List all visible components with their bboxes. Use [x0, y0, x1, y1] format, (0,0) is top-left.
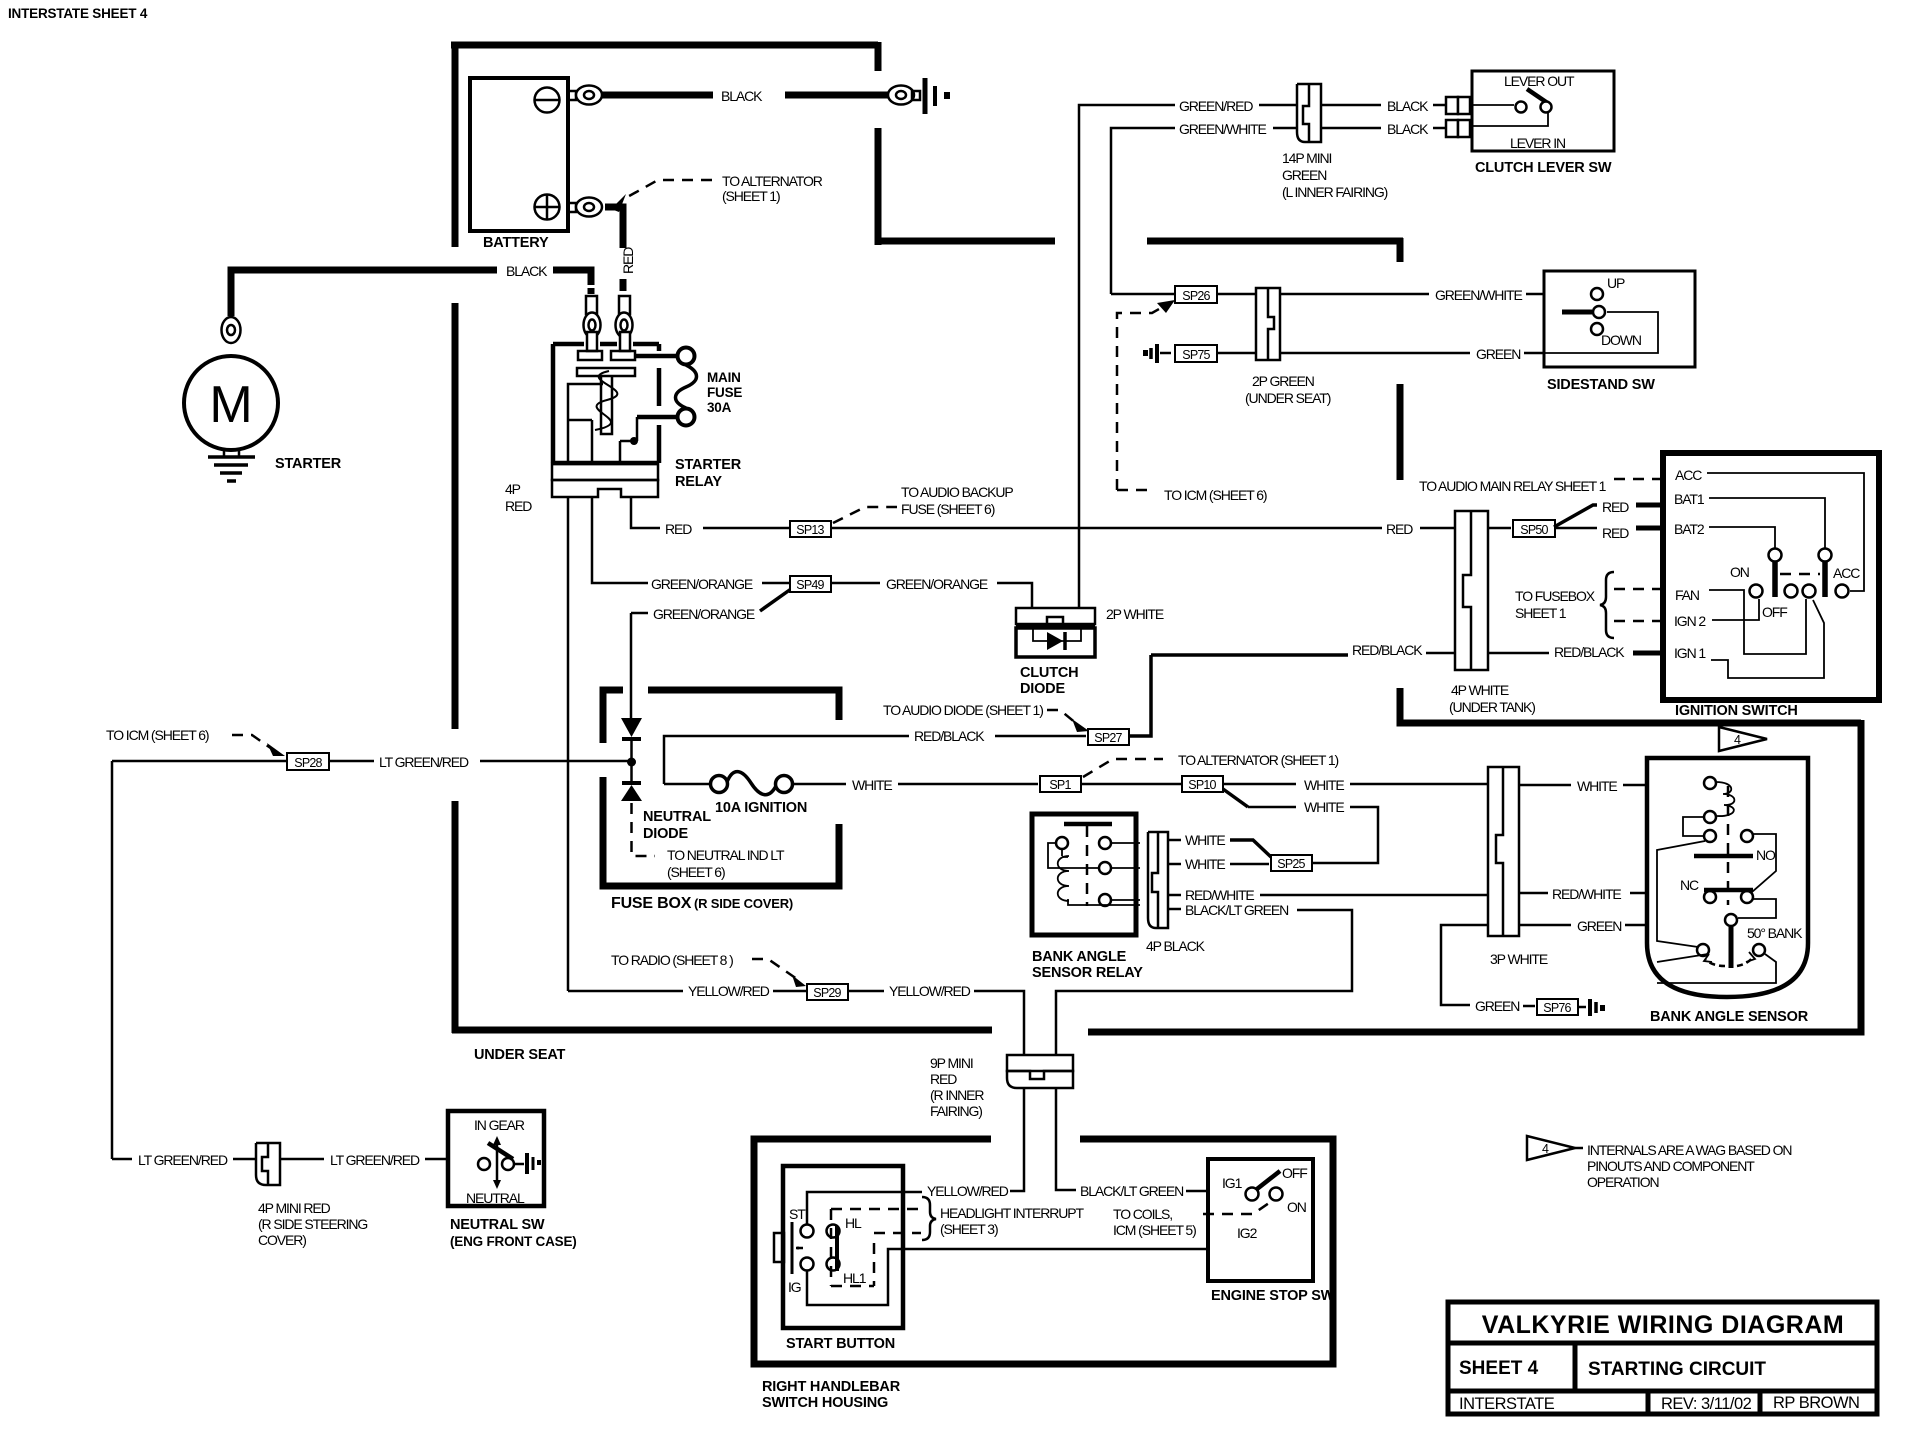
clutch diode box [1016, 608, 1095, 624]
splice SP75 [1175, 345, 1217, 362]
dashed TO ALTERNATOR (SHEET 1) pointer [622, 180, 712, 200]
svg-text:SP1: SP1 [1049, 778, 1071, 792]
ring terminal relay pin 1 [584, 313, 601, 338]
starter ground [224, 450, 239, 457]
svg-text:SP25: SP25 [1277, 857, 1305, 871]
svg-text:M: M [209, 376, 252, 434]
wire RED diagonal to BAT1 [1554, 505, 1597, 527]
svg-text:RED: RED [1602, 499, 1629, 515]
svg-text:FUSE: FUSE [707, 385, 742, 400]
svg-text:(ENG FRONT CASE): (ENG FRONT CASE) [450, 1234, 577, 1249]
svg-text:WHITE: WHITE [1185, 856, 1225, 872]
svg-text:RED: RED [1386, 521, 1413, 537]
svg-text:RIGHT HANDLEBAR: RIGHT HANDLEBAR [762, 1379, 901, 1395]
svg-text:RED/WHITE: RED/WHITE [1552, 886, 1621, 902]
svg-text:WHITE: WHITE [1304, 799, 1344, 815]
svg-text:RED: RED [1602, 525, 1629, 541]
fuse box wall left-bottom-right [603, 777, 839, 886]
wire 4P white to SP50 [1488, 527, 1511, 530]
svg-text:(SHEET 3): (SHEET 3) [940, 1221, 998, 1237]
wire relay T2 to main fuse [635, 354, 677, 359]
neutral diode upper (to junction) [621, 718, 642, 737]
wire RED/WHITE relay to 3P [1168, 894, 1181, 897]
ignition IGN1 line [1711, 600, 1824, 678]
wire SP26 to 2P green [1111, 293, 1175, 296]
wire RED from SP13 to 4P white [831, 527, 1382, 530]
svg-text:BLACK/LT GREEN: BLACK/LT GREEN [1080, 1183, 1183, 1199]
svg-text:GREEN/ORANGE: GREEN/ORANGE [886, 576, 988, 592]
wire IG loop to engine stop IG2 [807, 1201, 1276, 1305]
svg-text:50° BANK: 50° BANK [1747, 925, 1803, 941]
svg-text:WHITE: WHITE [852, 777, 892, 793]
svg-text:YELLOW/RED: YELLOW/RED [927, 1183, 1009, 1199]
svg-text:SP29: SP29 [813, 986, 841, 1000]
svg-text:2P WHITE: 2P WHITE [1106, 606, 1164, 622]
wall: left vertical x455 seg1 [452, 42, 459, 247]
wall: horizontal y241 segment a [875, 238, 1055, 245]
svg-text:SHEET 1: SHEET 1 [1515, 605, 1567, 621]
svg-text:GREEN: GREEN [1577, 918, 1621, 934]
relay internal wires [1048, 843, 1140, 905]
svg-text:TO COILS,: TO COILS, [1113, 1206, 1172, 1222]
svg-text:4: 4 [1734, 733, 1741, 747]
svg-text:TO ICM (SHEET 6): TO ICM (SHEET 6) [1164, 487, 1267, 503]
svg-text:BLACK/LT GREEN: BLACK/LT GREEN [1185, 902, 1288, 918]
svg-text:NC: NC [1680, 877, 1699, 893]
ground symbol at neutral sw [525, 1153, 529, 1174]
svg-text:ON: ON [1287, 1199, 1306, 1215]
svg-text:TO ALTERNATOR: TO ALTERNATOR [722, 173, 823, 189]
svg-text:OFF: OFF [1762, 604, 1787, 620]
svg-text:SWITCH HOUSING: SWITCH HOUSING [762, 1395, 888, 1411]
svg-text:YELLOW/RED: YELLOW/RED [688, 983, 770, 999]
wire BLACK battery to ground [602, 92, 713, 99]
wall: horizontal y241 segment b [1147, 238, 1403, 245]
wire SP1 to SP10 [1081, 783, 1181, 786]
wire YELLOW/RED SP29 to 9P [848, 990, 884, 993]
svg-text:REV: 3/11/02: REV: 3/11/02 [1661, 1395, 1752, 1413]
svg-text:GREEN: GREEN [1476, 346, 1520, 362]
sensor coil [1716, 782, 1734, 816]
svg-text:RED/BLACK: RED/BLACK [914, 728, 985, 744]
bullet connector pair lower [1446, 120, 1458, 137]
svg-text:ACC: ACC [1833, 565, 1860, 581]
wire GREEN/ORANGE from SP49 to clutch diode [831, 582, 880, 585]
svg-text:STARTING CIRCUIT: STARTING CIRCUIT [1588, 1359, 1766, 1380]
svg-text:(R INNER: (R INNER [930, 1087, 984, 1103]
wire RED/BLACK from fuse box [664, 736, 909, 784]
wall: right vertical x878 lower segment [875, 128, 882, 245]
ring terminal at battery negative [568, 91, 576, 100]
ground symbol at SP75 [1143, 350, 1148, 356]
sensor swing arrows [1706, 957, 1753, 966]
svg-text:SP28: SP28 [294, 756, 322, 770]
splice SP27 [1088, 729, 1129, 745]
svg-text:RED/WHITE: RED/WHITE [1185, 887, 1254, 903]
sensor NO bar [1694, 854, 1753, 859]
svg-text:INTERNALS ARE A WAG BASED ON: INTERNALS ARE A WAG BASED ON [1587, 1142, 1791, 1158]
wire ST to YELLOW/RED [807, 1192, 922, 1224]
neutral sw arrow [496, 1143, 499, 1182]
ground symbol at SP76 [1588, 999, 1592, 1016]
sensor dashed axis [1727, 786, 1730, 905]
svg-text:LT GREEN/RED: LT GREEN/RED [330, 1152, 420, 1168]
wire RED/WHITE 3P to sensor [1519, 892, 1548, 895]
wire LT GREEN/RED from SP28 to junction [112, 760, 287, 763]
svg-text:NEUTRAL: NEUTRAL [466, 1190, 525, 1206]
connector 2P GREEN [1256, 288, 1280, 360]
svg-text:BANK ANGLE SENSOR: BANK ANGLE SENSOR [1650, 1009, 1809, 1025]
svg-text:RELAY: RELAY [675, 474, 722, 490]
svg-text:RP BROWN: RP BROWN [1773, 1394, 1859, 1412]
wire WHITE relay to SP25 [1168, 863, 1181, 866]
svg-text:GREEN/WHITE: GREEN/WHITE [1435, 287, 1522, 303]
svg-text:FAIRING): FAIRING) [930, 1103, 982, 1119]
svg-text:4P MINI RED: 4P MINI RED [258, 1200, 331, 1216]
svg-text:BLACK: BLACK [506, 263, 548, 279]
svg-text:TO AUDIO BACKUP: TO AUDIO BACKUP [901, 484, 1013, 500]
svg-text:OPERATION: OPERATION [1587, 1174, 1659, 1190]
svg-text:(SHEET 6): (SHEET 6) [667, 864, 725, 880]
wire main fuse to junction [637, 415, 677, 420]
relay plunger [601, 376, 612, 434]
main fuse 30A [678, 348, 695, 365]
wire relay pin1 down (to yellow/red) [567, 497, 570, 991]
bank angle sensor relay box [1032, 814, 1136, 935]
wire GREEN/ORANGE 2 into fuse box [631, 612, 648, 615]
svg-text:UP: UP [1607, 275, 1625, 291]
svg-text:(R SIDE COVER): (R SIDE COVER) [694, 896, 793, 911]
bank angle sensor outline [1647, 758, 1808, 997]
svg-text:BLACK: BLACK [721, 88, 763, 104]
wire SP27 up to RED/BLACK run [1129, 655, 1151, 736]
start button dashed linkages [831, 1209, 921, 1286]
svg-text:FUSE BOX: FUSE BOX [611, 895, 692, 912]
wall: vertical x1400 seg2 [1397, 384, 1404, 480]
brace for TO FUSEBOX [1600, 572, 1614, 638]
svg-text:DIODE: DIODE [643, 826, 688, 842]
start button actuator [774, 1233, 784, 1262]
svg-text:HL1: HL1 [843, 1270, 867, 1286]
wire YELLOW/RED to SP29 [568, 990, 683, 993]
svg-text:RED/BLACK: RED/BLACK [1554, 644, 1625, 660]
wire LT GREEN/RED to 4P mini red [112, 1158, 132, 1161]
junction node [627, 758, 636, 767]
svg-text:3P WHITE: 3P WHITE [1490, 951, 1548, 967]
wire BLACK clutch lever 2 [1321, 127, 1381, 130]
relay contact bar [577, 368, 635, 376]
svg-text:SP49: SP49 [796, 578, 824, 592]
svg-text:IG1: IG1 [1222, 1175, 1243, 1191]
connector 3P WHITE [1488, 767, 1519, 936]
svg-text:4P WHITE: 4P WHITE [1451, 682, 1509, 698]
wire GREEN/RED from 14P to clutch diode [1079, 105, 1175, 608]
svg-text:WHITE: WHITE [1185, 832, 1225, 848]
svg-text:IG2: IG2 [1237, 1225, 1258, 1241]
connector 14P MINI GREEN [1297, 84, 1321, 142]
housing box walls [754, 1139, 1333, 1364]
clutch lever switch box [1472, 71, 1614, 151]
relay dashed axis [1086, 826, 1089, 906]
svg-text:RED: RED [930, 1071, 957, 1087]
brace for headlight interrupt [922, 1197, 936, 1240]
wire GREEN down to SP76 [1441, 925, 1488, 1005]
wire LT GREEN/RED vertical to neutral switch [111, 761, 114, 1159]
connector 4P MINI RED [256, 1143, 280, 1185]
svg-text:ENGINE STOP SW: ENGINE STOP SW [1211, 1288, 1335, 1304]
wire RED to BAT2 [1555, 527, 1597, 530]
svg-text:GREEN/WHITE: GREEN/WHITE [1179, 121, 1266, 137]
ring terminal relay pin 2 [616, 313, 633, 338]
wire GREEN 3P to sensor [1519, 924, 1571, 927]
svg-text:UNDER SEAT: UNDER SEAT [474, 1047, 566, 1063]
svg-text:SP10: SP10 [1188, 778, 1216, 792]
dashed TO AUDIO BACKUP FUSE (SHEET 6) [833, 507, 897, 523]
svg-text:GREEN: GREEN [1475, 998, 1519, 1014]
sensor internal wires left [1657, 817, 1705, 947]
svg-text:SP13: SP13 [796, 523, 824, 537]
starter relay connector body [552, 464, 658, 480]
svg-text:TO ALTERNATOR (SHEET 1): TO ALTERNATOR (SHEET 1) [1178, 752, 1339, 768]
svg-text:SHEET 4: SHEET 4 [1459, 1358, 1539, 1379]
note triangle 4 [1527, 1136, 1575, 1160]
svg-text:TO ICM (SHEET 6): TO ICM (SHEET 6) [106, 727, 209, 743]
svg-text:2P GREEN: 2P GREEN [1252, 373, 1314, 389]
svg-text:FUSE (SHEET 6): FUSE (SHEET 6) [901, 501, 995, 517]
svg-text:DOWN: DOWN [1601, 332, 1641, 348]
junction dot in relay [630, 437, 638, 445]
svg-text:IGN 2: IGN 2 [1674, 613, 1706, 629]
svg-text:BLACK: BLACK [1387, 121, 1429, 137]
svg-text:30A: 30A [707, 400, 732, 415]
dashed TO ALTERNATOR (SHEET 1) [1083, 759, 1163, 777]
starter motor M [184, 356, 278, 450]
fuse box wall top-left [603, 690, 623, 743]
svg-text:SP76: SP76 [1543, 1001, 1571, 1015]
svg-text:RED: RED [620, 247, 636, 274]
svg-text:GREEN/RED: GREEN/RED [1179, 98, 1253, 114]
svg-text:BAT1: BAT1 [1674, 491, 1705, 507]
svg-text:RED: RED [665, 521, 692, 537]
bullet connector pair upper [1446, 97, 1458, 114]
title block outer box [1448, 1302, 1877, 1414]
wire WHITE SP10 to 3P white [1223, 783, 1296, 786]
relay top contact bar [1064, 822, 1112, 827]
sidestand switch box [1544, 271, 1695, 367]
svg-text:SENSOR RELAY: SENSOR RELAY [1032, 965, 1143, 981]
svg-text:GREEN/ORANGE: GREEN/ORANGE [651, 576, 753, 592]
svg-text:TO RADIO (SHEET 8 ): TO RADIO (SHEET 8 ) [611, 952, 733, 968]
wall: left vertical x455 seg2 [452, 303, 459, 729]
svg-text:IGNITION SWITCH: IGNITION SWITCH [1675, 703, 1798, 719]
svg-text:CLUTCH: CLUTCH [1020, 665, 1078, 681]
wire BLACK clutch lever 1 [1321, 104, 1381, 107]
svg-text:BLACK: BLACK [1387, 98, 1429, 114]
wall: top boundary horizontal [451, 42, 878, 49]
sensor actuator bar [1729, 927, 1734, 968]
engine stop switch box [1208, 1159, 1313, 1281]
svg-text:FAN: FAN [1675, 587, 1699, 603]
svg-text:(R SIDE STEERING: (R SIDE STEERING [258, 1216, 367, 1232]
svg-text:START BUTTON: START BUTTON [786, 1336, 895, 1352]
dashed TO ICM (SHEET 6) riser to SP26 [1117, 305, 1166, 490]
svg-text:ICM (SHEET 5): ICM (SHEET 5) [1113, 1222, 1196, 1238]
svg-text:TO AUDIO DIODE (SHEET 1): TO AUDIO DIODE (SHEET 1) [883, 702, 1043, 718]
neutral sw contacts [478, 1158, 490, 1170]
svg-text:INTERSTATE: INTERSTATE [1459, 1395, 1555, 1413]
ignition internals: ACC line [1707, 473, 1864, 591]
svg-text:LEVER IN: LEVER IN [1510, 135, 1565, 151]
svg-text:(SHEET 1): (SHEET 1) [722, 188, 780, 204]
svg-text:ON: ON [1730, 564, 1749, 580]
svg-text:(UNDER SEAT): (UNDER SEAT) [1245, 390, 1331, 406]
svg-text:BANK ANGLE: BANK ANGLE [1032, 949, 1127, 965]
connector 4P WHITE [1455, 511, 1488, 670]
ignition IGN2 line [1712, 599, 1759, 620]
svg-text:NEUTRAL SW: NEUTRAL SW [450, 1217, 545, 1233]
svg-text:TO NEUTRAL IND LT: TO NEUTRAL IND LT [667, 847, 785, 863]
svg-text:LT GREEN/RED: LT GREEN/RED [138, 1152, 228, 1168]
svg-text:YELLOW/RED: YELLOW/RED [889, 983, 971, 999]
flag triangle 4 [1719, 727, 1767, 751]
connector 9P MINI RED [1007, 1055, 1073, 1071]
svg-text:BAT2: BAT2 [1674, 521, 1705, 537]
ignition internals: BAT2 line [1709, 527, 1775, 549]
relay coil winding [595, 371, 617, 430]
svg-text:IGN 1: IGN 1 [1674, 645, 1706, 661]
svg-text:STARTER: STARTER [275, 456, 342, 472]
svg-text:4P BLACK: 4P BLACK [1146, 938, 1206, 954]
sensor NC bar [1704, 888, 1753, 893]
svg-text:(L INNER FAIRING): (L INNER FAIRING) [1282, 184, 1388, 200]
ring terminal at starter [222, 317, 241, 343]
svg-text:PINOUTS AND COMPONENT: PINOUTS AND COMPONENT [1587, 1158, 1755, 1174]
ground symbol (battery negative) [923, 78, 928, 114]
svg-text:BATTERY: BATTERY [483, 235, 549, 251]
wire GREEN/WHITE to sidestand [1280, 293, 1429, 296]
svg-text:MAIN: MAIN [707, 370, 741, 385]
wall: left vertical x455 seg3 [452, 801, 459, 1033]
wire WHITE 3P to sensor [1519, 784, 1571, 787]
wire BLACK starter to relay [231, 270, 497, 316]
svg-text:INTERSTATE SHEET 4: INTERSTATE SHEET 4 [8, 6, 148, 21]
svg-text:TO FUSEBOX: TO FUSEBOX [1515, 588, 1596, 604]
svg-text:LT GREEN/RED: LT GREEN/RED [379, 754, 469, 770]
fuse 10A ignition [664, 783, 711, 786]
ignition switch box [1663, 453, 1879, 700]
svg-text:SP26: SP26 [1182, 289, 1210, 303]
relay T terminal 2 [611, 351, 635, 360]
svg-text:9P MINI: 9P MINI [930, 1055, 973, 1071]
wire GREEN/WHITE from 14P down to SP26 [1111, 128, 1175, 294]
wall: right vertical x1861 + bottom y1032 [1088, 720, 1861, 1032]
ignition bars ON/ACC [1769, 549, 1782, 562]
wire relay pin3 RED to SP13 [631, 497, 660, 528]
svg-text:NEUTRAL: NEUTRAL [643, 809, 711, 825]
svg-text:NO: NO [1756, 847, 1776, 863]
starter relay pin stems [586, 296, 597, 314]
svg-text:DIODE: DIODE [1020, 681, 1065, 697]
relay frame lines [568, 384, 603, 463]
svg-text:IG: IG [788, 1279, 801, 1295]
starter relay box [553, 344, 659, 463]
wire WHITE 2 from SP10 down [1223, 789, 1248, 807]
start button contact bar HL-HL1 [835, 1226, 839, 1271]
svg-text:CLUTCH LEVER SW: CLUTCH LEVER SW [1475, 160, 1612, 176]
neutral diode lower [630, 764, 633, 783]
sensor pin circles [1704, 777, 1716, 789]
svg-text:IN GEAR: IN GEAR [474, 1117, 525, 1133]
relay coil [1058, 849, 1069, 901]
neutral switch box [448, 1111, 544, 1206]
svg-text:TO AUDIO MAIN RELAY SHEET 1: TO AUDIO MAIN RELAY SHEET 1 [1419, 478, 1607, 494]
relay T terminal 1 [578, 351, 602, 360]
battery positive terminal [535, 195, 560, 220]
svg-text:SP27: SP27 [1094, 731, 1122, 745]
svg-text:LEVER OUT: LEVER OUT [1504, 73, 1575, 89]
svg-text:4P: 4P [505, 481, 521, 497]
battery negative terminal [535, 88, 560, 113]
svg-text:WHITE: WHITE [1577, 778, 1617, 794]
svg-text:COVER): COVER) [258, 1232, 306, 1248]
ring terminal at battery positive [568, 203, 576, 212]
svg-text:OFF: OFF [1282, 1165, 1307, 1181]
ignition internals: BAT1 line [1709, 498, 1825, 549]
ignition FAN line [1709, 590, 1806, 654]
wire BLACK/LT GREEN [1168, 908, 1181, 911]
svg-text:(UNDER TANK): (UNDER TANK) [1449, 699, 1535, 715]
svg-text:HEADLIGHT INTERRUPT: HEADLIGHT INTERRUPT [940, 1205, 1085, 1221]
svg-text:10A IGNITION: 10A IGNITION [715, 800, 807, 816]
sensor internal wires right [1657, 834, 1776, 983]
svg-text:GREEN: GREEN [1282, 167, 1326, 183]
wire LT GREEN/RED to neutral sw [280, 1158, 324, 1161]
wires below 9P [1010, 1088, 1024, 1191]
svg-text:ST: ST [789, 1206, 806, 1222]
svg-text:ACC: ACC [1675, 467, 1702, 483]
svg-text:WHITE: WHITE [1304, 777, 1344, 793]
connector 4P BLACK [1148, 832, 1168, 928]
clutch diode element [1033, 628, 1081, 641]
wire GREEN to sidestand [1280, 352, 1470, 355]
fuse box wall top-right [648, 690, 839, 720]
start button contacts [801, 1225, 814, 1238]
svg-text:4: 4 [1542, 1142, 1549, 1156]
svg-text:RED/BLACK: RED/BLACK [1352, 642, 1423, 658]
wall: vertical x1400 seg3 + horizontal y723 [1400, 688, 1861, 723]
ring terminal at ground [888, 86, 914, 105]
splice SP25 [1271, 855, 1312, 871]
svg-text:SIDESTAND SW: SIDESTAND SW [1547, 377, 1655, 393]
wire RED battery positive down [605, 207, 623, 248]
svg-text:SP50: SP50 [1520, 523, 1548, 537]
svg-text:VALKYRIE WIRING DIAGRAM: VALKYRIE WIRING DIAGRAM [1482, 1311, 1844, 1339]
title block dividers [1448, 1343, 1877, 1414]
svg-text:SP75: SP75 [1182, 348, 1210, 362]
wire relay pin2 GREEN/ORANGE to SP49 [592, 497, 648, 583]
clutch lever sw internals [1470, 104, 1514, 106]
battery box [470, 78, 568, 231]
svg-text:14P MINI: 14P MINI [1282, 150, 1332, 166]
relay terminal stems inside [587, 332, 597, 351]
svg-text:HL: HL [845, 1215, 862, 1231]
ignition contact circles [1750, 585, 1763, 598]
dashed to neutral ind lt [632, 803, 656, 856]
svg-text:GREEN/ORANGE: GREEN/ORANGE [653, 606, 755, 622]
relay circles [1056, 837, 1068, 849]
svg-text:RED: RED [505, 498, 532, 514]
start button box [783, 1166, 903, 1328]
